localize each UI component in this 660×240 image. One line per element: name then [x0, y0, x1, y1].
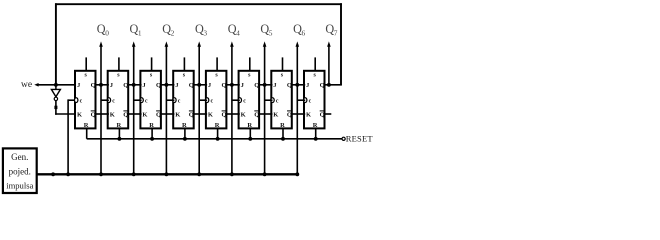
svg-text:Q: Q	[254, 82, 259, 89]
svg-text:K: K	[175, 112, 180, 119]
svg-text:Q: Q	[91, 82, 96, 89]
svg-text:Q: Q	[189, 82, 194, 89]
svg-text:6: 6	[302, 29, 306, 38]
svg-text:5: 5	[269, 29, 273, 38]
svg-text:Q: Q	[222, 112, 227, 119]
svg-text:c: c	[145, 99, 148, 105]
svg-text:Q: Q	[254, 112, 259, 119]
svg-text:c: c	[309, 99, 312, 105]
svg-text:we: we	[21, 80, 32, 90]
svg-text:Q: Q	[123, 112, 128, 119]
svg-text:c: c	[80, 99, 83, 105]
svg-text:Q: Q	[287, 82, 292, 89]
svg-text:R: R	[117, 122, 122, 129]
svg-text:R: R	[182, 122, 187, 129]
svg-text:Q: Q	[189, 112, 194, 119]
svg-text:c: c	[112, 99, 115, 105]
svg-text:K: K	[142, 112, 147, 119]
svg-text:pojed.: pojed.	[9, 167, 31, 177]
svg-text:0: 0	[105, 29, 109, 38]
svg-text:3: 3	[203, 29, 207, 38]
svg-text:c: c	[211, 99, 214, 105]
svg-text:K: K	[273, 112, 278, 119]
svg-text:R: R	[280, 122, 285, 129]
svg-text:Q: Q	[320, 112, 325, 119]
svg-text:K: K	[241, 112, 246, 119]
svg-text:Q: Q	[156, 112, 161, 119]
svg-text:R: R	[215, 122, 220, 129]
svg-text:c: c	[178, 99, 181, 105]
svg-text:2: 2	[171, 29, 175, 38]
svg-text:K: K	[306, 112, 311, 119]
svg-text:Q: Q	[287, 112, 292, 119]
svg-text:Q: Q	[320, 82, 325, 89]
svg-text:4: 4	[236, 29, 240, 38]
svg-text:K: K	[110, 112, 115, 119]
svg-text:c: c	[276, 99, 279, 105]
svg-text:RESET: RESET	[346, 134, 374, 144]
svg-text:R: R	[84, 122, 89, 129]
svg-text:R: R	[247, 122, 252, 129]
svg-text:Gen.: Gen.	[11, 152, 28, 162]
svg-text:R: R	[313, 122, 318, 129]
svg-text:7: 7	[334, 29, 338, 38]
svg-text:Q: Q	[222, 82, 227, 89]
svg-text:K: K	[208, 112, 213, 119]
svg-text:Q: Q	[91, 112, 96, 119]
svg-text:R: R	[149, 122, 154, 129]
svg-text:1: 1	[138, 29, 142, 38]
svg-text:Q: Q	[156, 82, 161, 89]
svg-text:K: K	[77, 112, 82, 119]
svg-text:impulsa: impulsa	[6, 181, 33, 191]
svg-text:c: c	[243, 99, 246, 105]
svg-text:Q: Q	[123, 82, 128, 89]
